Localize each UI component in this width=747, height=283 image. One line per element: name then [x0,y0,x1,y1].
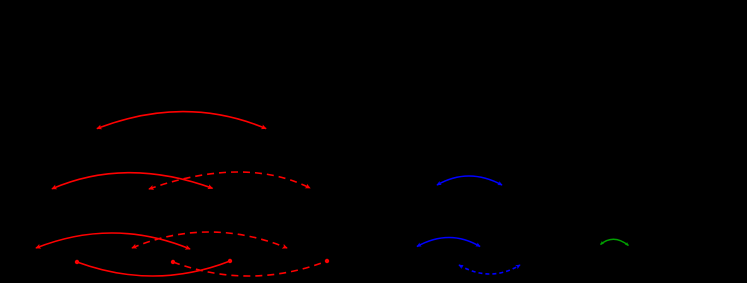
row3 under solid red arc [77,261,230,276]
row3 green arc [601,239,629,245]
row3 upper solid blue arc [417,238,480,247]
row2 solid red arc [52,173,213,189]
row3 upper solid red arc [36,233,190,249]
row3 under dashed blue arc [459,265,520,274]
row3 under dashed red arc [173,261,327,276]
row2 solid blue arc [437,176,502,185]
row3 upper dashed red arc [132,232,287,248]
row1 solid red arc [97,112,266,129]
row2 dashed red arc [149,172,310,189]
